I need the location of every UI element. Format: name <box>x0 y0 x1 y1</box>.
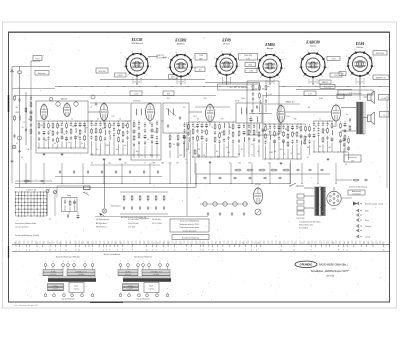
UKW module box <box>36 101 88 153</box>
svg-text:6: 6 <box>217 75 218 77</box>
EM84 string 4 <box>250 116 253 133</box>
svg-text:Tonband: Tonband <box>365 226 371 228</box>
component string <box>205 122 208 157</box>
svg-text:3: 3 <box>373 242 374 244</box>
strip drop wire <box>199 241 201 245</box>
ratio string 5 <box>258 123 260 157</box>
strip drop wire <box>123 241 125 245</box>
svg-text:FM Wellenbereich: FM Wellenbereich <box>96 218 110 221</box>
svg-text:5n: 5n <box>267 129 269 131</box>
left rail wire 2 <box>19 150 21 188</box>
arrow symbol <box>353 202 357 206</box>
component string <box>269 124 271 159</box>
junction <box>317 183 318 184</box>
EM84 string 3 <box>265 83 267 112</box>
svg-text:130: 130 <box>154 132 157 134</box>
wire <box>11 88 13 160</box>
svg-text:7: 7 <box>213 67 214 69</box>
svg-text:LS: LS <box>383 115 385 117</box>
tube T6 EL84 <box>332 104 341 122</box>
strip drop wire <box>363 241 365 245</box>
svg-text:ZF-Verst.: ZF-Verst. <box>223 43 231 46</box>
elco <box>77 215 80 220</box>
component string <box>344 121 347 152</box>
right edge wire <box>386 96 388 188</box>
svg-text:2k: 2k <box>63 134 65 136</box>
svg-text:3: 3 <box>76 242 77 244</box>
voltage box at V2 <box>195 54 207 61</box>
svg-text:210V 85V: 210V 85V <box>244 55 253 57</box>
svg-text:30: 30 <box>97 119 99 121</box>
rail link f <box>262 123 265 125</box>
legend rule <box>95 216 208 218</box>
wire <box>209 122 211 127</box>
strip drop wire <box>171 241 173 245</box>
svg-text:L5: L5 <box>90 107 92 109</box>
svg-text:EL84: EL84 <box>355 42 365 46</box>
lamp arrow <box>100 213 105 217</box>
bus junction <box>347 86 348 87</box>
wire <box>285 111 331 113</box>
wire <box>25 92 27 145</box>
svg-text:0,5: 0,5 <box>21 157 23 159</box>
legend box right <box>170 219 209 232</box>
EM84 stage box <box>247 81 279 135</box>
svg-text:1n: 1n <box>28 119 30 121</box>
capacitor <box>25 128 27 132</box>
svg-text:ZF 2: ZF 2 <box>235 101 239 103</box>
svg-text:10p: 10p <box>140 155 143 157</box>
long wire <box>15 183 290 185</box>
voltage box at V5 c <box>330 73 342 77</box>
junction <box>269 83 270 84</box>
svg-text:170V: 170V <box>199 55 204 57</box>
voltage box at V3 c <box>245 69 257 73</box>
strip drop wire <box>151 241 153 245</box>
EM84 rail <box>249 113 272 115</box>
svg-text:500: 500 <box>298 153 301 155</box>
wire sw drop b <box>54 194 56 217</box>
box left of V1 <box>96 68 108 73</box>
svg-text:1n: 1n <box>251 155 253 157</box>
svg-text:a: a <box>174 242 175 244</box>
output transformer <box>357 102 363 134</box>
junction <box>359 83 360 84</box>
string c <box>343 136 346 162</box>
power transformer primary <box>316 187 319 216</box>
wire <box>77 212 79 215</box>
terminal strip top line <box>12 243 389 245</box>
wire tube drop 2 <box>176 79 178 85</box>
svg-text:12: 12 <box>146 250 148 252</box>
svg-text:von vorn gesehen: von vorn gesehen <box>15 226 28 229</box>
component string <box>317 121 319 152</box>
bus junction <box>379 86 380 87</box>
svg-text:15: 15 <box>301 242 303 244</box>
capacitor C11 <box>83 121 86 148</box>
wire tube drop 2 <box>355 78 357 84</box>
strip drop wire <box>31 241 33 245</box>
svg-text:C12: C12 <box>112 116 115 118</box>
strip drop wire <box>379 241 381 245</box>
IF cap <box>167 124 169 128</box>
strip drop wire <box>103 241 105 245</box>
wire <box>31 60 40 62</box>
svg-text:220V~: 220V~ <box>332 209 337 211</box>
strip drop wire <box>263 241 265 245</box>
wire <box>38 147 86 149</box>
wire tube drop 3 <box>140 78 142 85</box>
horizontal rail 2 <box>195 106 230 108</box>
pin label box 2 <box>163 91 174 96</box>
svg-text:11: 11 <box>222 250 224 252</box>
capacitor C3 <box>47 121 49 148</box>
switch contact a <box>46 189 50 193</box>
ratio string 2 <box>243 123 246 157</box>
svg-text:4: 4 <box>146 75 147 77</box>
svg-text:11: 11 <box>383 250 385 252</box>
dark box <box>337 94 344 98</box>
junction <box>149 183 150 184</box>
svg-text:a: a <box>226 242 227 244</box>
svg-text:300: 300 <box>238 163 241 165</box>
oscillator coil <box>135 109 138 115</box>
pin label box 3 <box>304 91 316 96</box>
speaker label box 2 <box>380 112 390 118</box>
tube socket V2 ECH81 <box>167 52 196 81</box>
horizontal rail <box>90 102 130 104</box>
ground <box>18 150 21 153</box>
strip drop wire <box>267 241 269 245</box>
EM84 dot <box>252 113 253 114</box>
svg-text:4: 4 <box>190 76 191 78</box>
svg-text:Druckknopf-Betätigung 10stell: Druckknopf-Betätigung 10stellig <box>15 234 39 237</box>
svg-text:Netzdrossel 9696-014: Netzdrossel 9696-014 <box>134 256 152 259</box>
svg-text:58 Wdg: 58 Wdg <box>50 271 55 273</box>
strip drop wire <box>163 241 165 245</box>
svg-text:40p: 40p <box>85 127 88 129</box>
svg-text:6: 6 <box>285 242 286 244</box>
strings in osc box 4 <box>151 122 154 158</box>
svg-text:ZF: ZF <box>183 107 185 109</box>
svg-text:6: 6 <box>251 250 252 252</box>
wire drop <box>230 163 232 184</box>
mains drop wire <box>290 160 292 184</box>
strip drop wire <box>131 241 133 245</box>
svg-text:15: 15 <box>81 242 83 244</box>
bus junction <box>59 86 60 87</box>
wire <box>90 154 160 156</box>
wire tube drop <box>226 76 228 85</box>
svg-text:R34: R34 <box>287 116 290 118</box>
wire <box>68 212 70 215</box>
svg-text:1k: 1k <box>68 142 70 144</box>
dial cord wire 2 <box>190 130 192 184</box>
voltage box at V1 <box>115 73 127 77</box>
antenna trimmer <box>18 67 21 78</box>
wire <box>90 120 130 122</box>
dial lamp <box>102 209 106 213</box>
svg-text:9: 9 <box>132 250 133 252</box>
svg-text:RADIO-WERK GMBH (Bln.): RADIO-WERK GMBH (Bln.) <box>319 264 348 267</box>
wire <box>336 179 352 181</box>
svg-text:0,07 CuL: 0,07 CuL <box>149 289 155 291</box>
svg-text:EM84: EM84 <box>264 43 275 47</box>
wire <box>359 77 361 101</box>
strip drop wire <box>127 241 129 245</box>
strip drop wire <box>211 241 213 245</box>
svg-text:7: 7 <box>298 67 299 69</box>
svg-text:Anzeige: Anzeige <box>267 47 274 50</box>
wire <box>364 102 366 134</box>
IF string <box>177 133 180 158</box>
bus junction <box>267 86 268 87</box>
wire drop <box>25 163 27 184</box>
wire tube drop 2 <box>132 78 134 85</box>
svg-text:TB1: TB1 <box>167 98 170 100</box>
resistor <box>14 95 16 101</box>
bus junction <box>235 86 236 87</box>
EM84 string 2 <box>259 83 261 112</box>
antenna bus link <box>12 88 55 90</box>
svg-text:6,3: 6,3 <box>225 64 228 66</box>
voltage box at V6 a <box>373 51 387 56</box>
svg-text:6: 6 <box>350 75 351 77</box>
svg-text:R12: R12 <box>221 119 224 121</box>
svg-text:6,3: 6,3 <box>269 66 272 68</box>
junction <box>103 183 104 184</box>
bus wire r <box>279 86 390 88</box>
svg-text:C8: C8 <box>119 119 121 121</box>
strip drop wire <box>203 241 205 245</box>
svg-text:10,7 MHz: 10,7 MHz <box>128 227 135 229</box>
svg-text:0,07 CuL: 0,07 CuL <box>128 289 134 291</box>
svg-text:10n: 10n <box>116 149 119 151</box>
wire <box>313 120 333 122</box>
strip drop wire <box>287 241 289 245</box>
component string <box>287 124 289 159</box>
strip drop wire <box>207 241 209 245</box>
wire <box>335 121 337 127</box>
svg-text:300: 300 <box>280 149 283 151</box>
svg-text:6,8: 6,8 <box>45 140 47 142</box>
svg-text:3: 3 <box>152 250 153 252</box>
string <box>305 124 307 132</box>
tube T3 ECH81 hexode <box>146 102 155 121</box>
voltage box at V6 b <box>373 75 389 80</box>
svg-text:4,7: 4,7 <box>86 193 88 195</box>
wide label box <box>338 90 373 95</box>
svg-text:110 125 220: 110 125 220 <box>297 218 305 220</box>
tube T4 EF89 <box>206 103 215 122</box>
svg-text:50: 50 <box>298 127 300 129</box>
component string <box>278 124 281 159</box>
svg-text:F: F <box>139 242 140 244</box>
wire tone <box>56 186 58 198</box>
trimmer <box>91 95 95 99</box>
resistor <box>14 115 16 121</box>
svg-text:87,5-100 MHz: 87,5-100 MHz <box>128 219 139 221</box>
entbrummer box <box>344 155 361 162</box>
wire drop <box>43 163 45 184</box>
svg-text:2k: 2k <box>257 151 259 153</box>
svg-text:0,1: 0,1 <box>49 219 51 221</box>
svg-text:6: 6 <box>260 77 261 79</box>
svg-text:TB2: TB2 <box>204 98 207 100</box>
component string <box>117 121 120 155</box>
svg-text:3 4 5 6 9: 3 4 5 6 9 <box>178 82 184 84</box>
rail link <box>86 120 92 122</box>
strip drop wire <box>227 241 229 245</box>
strip drop wire <box>139 241 141 245</box>
svg-text:21: 21 <box>49 242 51 244</box>
junction <box>43 183 44 184</box>
wire drop <box>317 163 319 184</box>
strip drop wire <box>243 241 245 245</box>
wire <box>103 121 105 125</box>
capacitor <box>40 180 44 182</box>
svg-text:Klang: Klang <box>67 195 71 197</box>
strip drop wire <box>143 241 145 245</box>
svg-text:15: 15 <box>279 242 281 244</box>
legend box right 2 <box>172 235 209 240</box>
strip drop wire <box>359 241 361 245</box>
bus wire <box>205 82 260 84</box>
svg-text:5: 5 <box>93 242 94 244</box>
svg-text:F: F <box>338 250 339 252</box>
wire <box>57 185 83 187</box>
svg-text:6,3: 6,3 <box>312 65 315 67</box>
svg-text:EABC80: EABC80 <box>322 81 329 84</box>
left string <box>30 95 33 150</box>
string pre-EF89 b <box>187 122 189 150</box>
ground <box>11 160 14 163</box>
wire <box>192 156 238 158</box>
wire drop <box>301 163 303 184</box>
svg-text:0,25: 0,25 <box>179 155 182 157</box>
svg-text:4: 4 <box>149 242 150 244</box>
voltage box at V5 <box>319 80 331 84</box>
resistor <box>25 107 27 113</box>
switch matrix grid <box>15 191 47 216</box>
svg-text:1k: 1k <box>284 154 286 156</box>
strip drop wire <box>259 241 261 245</box>
rail link b <box>128 120 131 122</box>
svg-text:EZ 80: EZ 80 <box>255 184 260 186</box>
svg-text:Klangregister: Klangregister <box>139 217 149 220</box>
strip drop wire <box>315 241 317 245</box>
wire drop <box>121 163 123 184</box>
strip drop wire <box>69 241 71 245</box>
wire <box>344 93 352 95</box>
component string <box>291 124 294 159</box>
wire tube drop <box>269 78 271 84</box>
svg-text:AM-Misch.: AM-Misch. <box>177 43 186 46</box>
terminal strip ticks <box>16 244 385 251</box>
strip drop wire <box>183 241 185 245</box>
strip drop wire <box>51 241 53 245</box>
stage box ECH81 <box>131 103 161 160</box>
bus junction <box>331 86 332 87</box>
wire tube drop <box>359 77 361 85</box>
strip drop wire <box>223 241 225 245</box>
svg-text:40p: 40p <box>108 163 111 165</box>
voltage box at V3 <box>239 54 258 61</box>
svg-text:a: a <box>355 242 356 244</box>
svg-text:b8: b8 <box>257 242 259 244</box>
pin label box <box>130 91 142 96</box>
bus junction <box>91 86 92 87</box>
svg-text:4: 4 <box>29 250 30 252</box>
svg-text:1n: 1n <box>49 130 51 132</box>
ground <box>119 158 122 161</box>
svg-text:a: a <box>48 116 49 118</box>
svg-text:100: 100 <box>351 160 354 162</box>
wire <box>15 180 52 182</box>
wire drop <box>289 163 291 184</box>
stage boundary wire <box>262 96 264 161</box>
svg-text:100: 100 <box>102 128 105 130</box>
strip drop wire <box>347 241 349 245</box>
bus junction <box>75 86 76 87</box>
svg-text:5n: 5n <box>124 145 126 147</box>
svg-text:ZF 10,7 MHz: ZF 10,7 MHz <box>152 223 162 225</box>
component string <box>104 121 106 155</box>
mains switch <box>289 183 304 187</box>
power transformer frame <box>315 187 326 216</box>
svg-text:8k: 8k <box>241 149 243 151</box>
capacitor C5 <box>56 121 58 148</box>
svg-text:1k: 1k <box>186 163 188 165</box>
svg-text:R21: R21 <box>194 116 197 118</box>
rail link g <box>300 123 305 125</box>
svg-text:50: 50 <box>93 125 95 127</box>
capacitor C6 <box>61 121 64 148</box>
bus box TA/TB <box>218 84 260 90</box>
bus junction <box>139 86 140 87</box>
lower caps row <box>203 177 282 179</box>
voltage box left of V6 <box>339 72 346 76</box>
capacitor <box>364 179 368 181</box>
svg-text:R30: R30 <box>294 119 297 121</box>
svg-text:5k: 5k <box>249 119 251 121</box>
svg-text:UKW 100: UKW 100 <box>98 71 105 73</box>
strip drop wire <box>311 241 313 245</box>
junction <box>251 183 252 184</box>
ground <box>43 153 46 156</box>
svg-text:0,1: 0,1 <box>77 136 79 138</box>
wire <box>195 174 197 188</box>
strip drop wire <box>191 241 193 245</box>
strip drop wire <box>255 241 257 245</box>
component string <box>339 121 342 152</box>
component string <box>108 121 110 155</box>
wire <box>264 158 302 160</box>
strip drop wire <box>295 241 297 245</box>
tone cap <box>349 118 351 122</box>
component string <box>273 124 276 159</box>
svg-text:3: 3 <box>92 250 93 252</box>
capacitor <box>13 134 15 138</box>
winding diagram group 2 <box>118 256 171 301</box>
wire tube drop 3 <box>273 80 275 85</box>
svg-text:40p: 40p <box>136 151 139 153</box>
wire tube drop 2 <box>222 77 224 84</box>
svg-text:ZF 460 kHz: ZF 460 kHz <box>152 219 161 221</box>
wire tube drop 2 <box>308 79 310 84</box>
horizontal rail 3 <box>264 103 300 105</box>
GRUNDIG logo oval <box>295 261 317 268</box>
